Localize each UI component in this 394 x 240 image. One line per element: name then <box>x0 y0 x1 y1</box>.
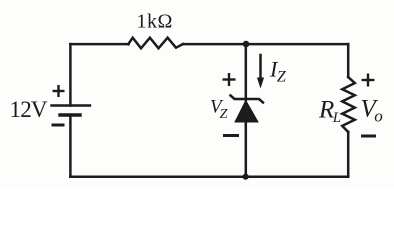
resistor 1kΩ zigzag <box>128 38 183 49</box>
minus sign VZ <box>223 134 239 137</box>
current arrow IZ <box>259 55 262 80</box>
plus sign Vo <box>362 79 375 81</box>
wire left branch lower <box>69 115 72 177</box>
zener diode cathode bar with bent tails <box>231 96 264 103</box>
minus sign battery <box>52 124 65 127</box>
battery V1 short plate (-) <box>60 113 80 116</box>
wire top-right segment <box>183 43 349 46</box>
zener diode triangle <box>235 101 258 123</box>
battery V1 long plate (+) <box>52 104 91 106</box>
current arrow IZ head <box>257 78 264 89</box>
svg-text:1kΩ: 1kΩ <box>137 11 173 33</box>
wire right branch upper <box>347 44 350 77</box>
node junction bottom <box>243 174 249 180</box>
svg-text:12V: 12V <box>10 97 48 122</box>
plus sign VZ <box>223 78 236 80</box>
wire left branch upper <box>69 44 72 105</box>
wire right branch lower <box>347 132 350 177</box>
resistor RL zigzag <box>342 77 355 132</box>
wire top-left segment <box>70 43 128 46</box>
wire middle branch upper <box>245 44 248 100</box>
wire middle branch lower <box>245 121 248 177</box>
wire bottom <box>70 175 348 178</box>
node junction top <box>243 41 250 48</box>
minus sign Vo <box>361 135 376 138</box>
plus sign battery <box>53 90 65 92</box>
